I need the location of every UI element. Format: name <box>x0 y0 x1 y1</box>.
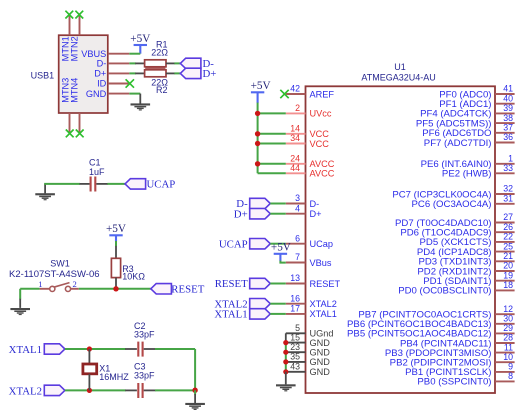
net label RESET (switch side) <box>151 284 172 294</box>
svg-text:AREF: AREF <box>310 89 335 99</box>
junction VCC pin14 <box>255 131 260 136</box>
U1 pin 40 PF1 <box>495 103 515 105</box>
USB1 pin MTN2 <box>79 15 81 35</box>
USB1 pin MTN1 <box>69 15 71 35</box>
svg-text:D+: D+ <box>310 209 322 219</box>
USB1 pin GND <box>108 93 130 95</box>
no-connect X on AREF <box>280 90 288 98</box>
U1 pin 27 PD7 <box>495 222 515 224</box>
wire rail to UVcc <box>258 112 286 114</box>
svg-text:38: 38 <box>503 113 513 123</box>
svg-text:42: 42 <box>290 84 300 94</box>
U1 pin 32 PC7 <box>495 193 515 195</box>
junction XTAL1/crystal <box>87 346 92 351</box>
svg-text:6: 6 <box>295 233 300 243</box>
wire +5V to R3 <box>115 241 117 246</box>
svg-text:40: 40 <box>503 93 513 103</box>
svg-text:XTAL1: XTAL1 <box>214 309 247 321</box>
svg-text:13: 13 <box>290 273 300 283</box>
svg-text:+5V: +5V <box>130 33 150 45</box>
svg-text:GND: GND <box>86 89 107 99</box>
svg-text:+5V: +5V <box>251 80 271 92</box>
svg-text:PD0 (OC0BSCLINT0): PD0 (OC0BSCLINT0) <box>398 286 491 297</box>
svg-text:20: 20 <box>503 261 513 271</box>
svg-text:C1: C1 <box>89 157 101 167</box>
svg-text:10: 10 <box>503 352 513 362</box>
wire D- to U1 <box>270 203 286 205</box>
ground (USB) <box>139 94 141 104</box>
svg-text:ATMEGA32U4-AU: ATMEGA32U4-AU <box>361 73 435 83</box>
U1 pin 34 VCC <box>286 143 306 145</box>
svg-text:1: 1 <box>508 154 513 164</box>
U1 pin 39 PF4 <box>495 112 515 114</box>
svg-text:24: 24 <box>290 154 300 164</box>
svg-text:PB0 (SSPCINT0): PB0 (SSPCINT0) <box>417 377 491 388</box>
svg-text:19: 19 <box>503 270 513 280</box>
svg-text:4: 4 <box>295 203 300 213</box>
U1 pin 13 RESET <box>286 283 306 285</box>
no-connect X MTN4 <box>76 130 84 138</box>
switch contact 1 <box>50 286 55 291</box>
svg-text:30: 30 <box>503 314 513 324</box>
U1 pin 29 PB5 <box>495 332 515 334</box>
wire ground to C1 <box>44 183 80 185</box>
wire RESET to U1 <box>270 283 286 285</box>
wire ground to switch pin 1 <box>20 288 39 290</box>
svg-text:PF7 (ADC7TDI): PF7 (ADC7TDI) <box>424 138 492 149</box>
svg-text:UCAP: UCAP <box>147 179 176 191</box>
resistor R3 10K <box>111 258 120 277</box>
wire switch to RESET junction <box>79 288 151 290</box>
svg-text:12: 12 <box>503 304 513 314</box>
U1 pin 19 PD1 <box>495 280 515 282</box>
svg-text:GND: GND <box>310 338 331 348</box>
capacitor C2 33pF <box>125 348 137 350</box>
svg-text:ID: ID <box>97 79 107 89</box>
svg-text:D+: D+ <box>94 69 106 79</box>
svg-text:AVCC: AVCC <box>310 169 335 179</box>
svg-text:39: 39 <box>503 103 513 113</box>
svg-text:11: 11 <box>504 342 513 352</box>
wire right rail vertical <box>194 349 196 390</box>
USB1 pin D- <box>108 62 130 64</box>
U1 pin 17 XTAL1 <box>286 313 306 315</box>
USB1 pin MTN4 <box>79 113 81 133</box>
junction RESET net <box>113 286 118 291</box>
svg-text:UCAP: UCAP <box>219 238 248 250</box>
U1 pin 44 AVCC <box>286 172 306 174</box>
wire VBUS to +5V <box>129 53 140 55</box>
svg-text:1uF: 1uF <box>89 167 105 177</box>
U1 pin 33 PE2 <box>495 172 515 174</box>
U1 pin 43 GND <box>286 371 306 373</box>
wire rail to AVCC pin24 <box>258 163 286 165</box>
U1 pin 11 PB3 <box>495 352 515 354</box>
svg-text:25: 25 <box>503 241 513 251</box>
wire C1 to UCAP label <box>107 183 125 185</box>
wire XTAL1 to U1 <box>270 313 286 315</box>
switch SW1 pin 2 <box>71 288 79 290</box>
U1 pin 6 UCap <box>286 243 306 245</box>
svg-text:D-: D- <box>97 59 107 69</box>
svg-text:35: 35 <box>290 352 300 362</box>
svg-text:VBus: VBus <box>310 258 332 268</box>
svg-text:XTAL2: XTAL2 <box>310 299 337 309</box>
junction GND pin35 <box>283 359 288 364</box>
wire USB D+ to R2 <box>129 72 136 74</box>
net label D- (USB side) <box>180 58 201 68</box>
svg-text:7: 7 <box>295 252 300 262</box>
svg-text:K2-1107ST-A4SW-06: K2-1107ST-A4SW-06 <box>9 269 99 280</box>
svg-text:R2: R2 <box>156 85 168 95</box>
wire rail to VCC pin14 <box>258 133 286 135</box>
wire C3 to right rail <box>155 389 195 391</box>
svg-text:43: 43 <box>290 362 300 372</box>
U1 pin 8 PB0 <box>495 380 515 382</box>
wire USB GND to ground <box>129 93 140 95</box>
svg-text:22Ω: 22Ω <box>151 48 168 58</box>
junction XTAL2/crystal <box>87 388 92 393</box>
U1 pin 30 PB6 <box>495 323 515 325</box>
svg-text:31: 31 <box>503 194 513 204</box>
junction right rail / ground <box>192 388 197 393</box>
U1 pin 2 UVcc <box>286 112 306 114</box>
svg-text:18: 18 <box>503 280 513 290</box>
svg-text:22: 22 <box>503 232 513 242</box>
svg-text:37: 37 <box>503 123 513 133</box>
wire UCAP to U1 <box>270 243 286 245</box>
svg-text:XTAL1: XTAL1 <box>310 309 337 319</box>
svg-text:PE2 (HWB): PE2 (HWB) <box>442 169 492 180</box>
wire rail to AVCC pin44 <box>258 172 286 174</box>
svg-text:GND: GND <box>310 348 331 358</box>
svg-text:36: 36 <box>503 132 513 142</box>
svg-text:16: 16 <box>290 293 300 303</box>
svg-text:44: 44 <box>290 163 300 173</box>
IC U1 body <box>306 86 496 393</box>
switch SW1 pin 1 <box>40 288 50 290</box>
U1 pin 36 PF7 <box>495 142 515 144</box>
svg-text:16MHZ: 16MHZ <box>99 372 129 382</box>
svg-text:VBUS: VBUS <box>81 49 106 59</box>
svg-text:D+: D+ <box>234 208 248 220</box>
U1 pin 16 XTAL2 <box>286 303 306 305</box>
U1 pin 10 PB2 <box>495 361 515 363</box>
svg-text:GND: GND <box>310 357 331 367</box>
wire D+ to U1 <box>270 213 286 215</box>
USB1 pin VBUS <box>108 53 130 55</box>
switch contact 2 <box>65 286 70 291</box>
connector USB1 <box>59 35 108 113</box>
U1 pin 37 PF6 <box>495 132 515 134</box>
capacitor C1 1uF <box>80 183 90 185</box>
wire XTAL2 row <box>65 389 126 391</box>
wire UGnd bus vertical <box>285 333 287 343</box>
svg-text:9: 9 <box>508 362 513 372</box>
svg-text:3: 3 <box>295 193 300 203</box>
U1 pin 31 PC6 <box>495 203 515 205</box>
wire C2 to right rail <box>155 348 195 350</box>
U1 pin 26 PD6 <box>495 231 515 233</box>
svg-text:XTAL1: XTAL1 <box>9 344 42 356</box>
svg-text:27: 27 <box>503 212 513 222</box>
svg-text:D-: D- <box>310 199 320 209</box>
net label UCAP (C1 side) <box>125 179 146 189</box>
svg-text:14: 14 <box>290 124 300 134</box>
svg-text:2: 2 <box>295 103 300 113</box>
no-connect X MTN3 <box>66 130 74 138</box>
svg-text:33pF: 33pF <box>134 330 155 340</box>
U1 pin 22 PD5 <box>495 241 515 243</box>
junction UVcc <box>255 111 260 116</box>
no-connect X on USB ID <box>126 79 134 87</box>
svg-text:UCap: UCap <box>310 239 334 249</box>
svg-text:32: 32 <box>503 184 513 194</box>
wire +5V to VBus <box>280 261 285 263</box>
svg-text:21: 21 <box>503 251 513 261</box>
svg-text:GND: GND <box>310 367 331 377</box>
U1 pin 25 PD4 <box>495 251 515 253</box>
switch lever <box>54 283 70 288</box>
svg-text:RESET: RESET <box>171 284 204 296</box>
U1 pin 9 PB1 <box>495 371 515 373</box>
U1 pin 1 PE6 <box>495 163 515 165</box>
svg-text:33pF: 33pF <box>134 370 155 380</box>
svg-text:33: 33 <box>503 163 513 173</box>
U1 pin 38 PF5 <box>495 122 515 124</box>
wire XTAL2 to U1 <box>270 303 286 305</box>
USB1 pin ID <box>108 83 130 85</box>
svg-text:VCC: VCC <box>310 139 330 149</box>
svg-text:PC6 (OC3AOC4A): PC6 (OC3AOC4A) <box>412 199 492 210</box>
svg-text:23: 23 <box>290 342 300 352</box>
junction VCC pin34 <box>255 141 260 146</box>
ground (crystal) <box>194 390 196 394</box>
wire USB D- to R1 <box>129 62 136 64</box>
junction GND pin23 <box>283 350 288 355</box>
U1 pin 28 PB4 <box>495 342 515 344</box>
svg-text:D+: D+ <box>203 68 217 80</box>
svg-text:+5V: +5V <box>271 242 291 254</box>
U1 pin 42 AREF <box>286 93 306 95</box>
svg-text:RESET: RESET <box>310 279 341 289</box>
U1 pin 23 GND <box>286 351 306 353</box>
wire R3 to junction <box>115 278 117 289</box>
junction AVCC pin24 <box>255 161 260 166</box>
wire R1 to D- label <box>166 62 175 64</box>
svg-text:+5V: +5V <box>106 223 126 235</box>
svg-text:AVCC: AVCC <box>310 159 335 169</box>
U1 pin 20 PD2 <box>495 270 515 272</box>
junction GND pin15 <box>283 340 288 345</box>
svg-text:XTAL2: XTAL2 <box>9 385 42 397</box>
crystal X1 16MHZ <box>88 349 90 364</box>
U1 pin 14 VCC <box>286 133 306 135</box>
U1 pin 24 AVCC <box>286 163 306 165</box>
svg-text:15: 15 <box>290 332 300 342</box>
svg-text:17: 17 <box>290 304 300 314</box>
ground (switch) <box>19 289 21 300</box>
resistor R1 22ohm <box>145 67 165 70</box>
svg-text:VCC: VCC <box>310 129 330 139</box>
wire +5V rail vertical <box>257 103 259 174</box>
svg-text:28: 28 <box>503 333 513 343</box>
U1 pin 21 PD3 <box>495 260 515 262</box>
svg-text:USB1: USB1 <box>31 71 55 81</box>
junction GND pin43 <box>283 369 288 374</box>
resistor R2 22ohm <box>145 70 166 77</box>
svg-text:UVcc: UVcc <box>310 109 332 119</box>
svg-text:1: 1 <box>38 279 42 289</box>
no-connect X MTN1 <box>65 11 73 19</box>
svg-text:2: 2 <box>72 279 76 289</box>
svg-text:41: 41 <box>503 84 513 94</box>
svg-text:8: 8 <box>508 371 513 381</box>
USB1 pin MTN3 <box>69 113 71 133</box>
U1 pin 12 PB7 <box>495 313 515 315</box>
svg-text:10KΩ: 10KΩ <box>122 272 145 282</box>
U1 pin 4 D+ <box>286 213 306 215</box>
net label D+ (USB side) <box>180 68 201 78</box>
svg-text:29: 29 <box>503 323 513 333</box>
svg-text:26: 26 <box>503 222 513 232</box>
U1 pin 5 UGnd <box>286 332 306 334</box>
svg-text:MTN2: MTN2 <box>69 36 79 61</box>
svg-text:MTN4: MTN4 <box>69 78 79 103</box>
wire R2 to D+ label <box>166 72 175 74</box>
wire XTAL1 row <box>65 348 126 350</box>
svg-text:SW1: SW1 <box>50 259 70 269</box>
svg-text:34: 34 <box>290 133 300 143</box>
svg-text:U1: U1 <box>394 62 406 72</box>
U1 pin 18 PD0 <box>495 289 515 291</box>
U1 pin 15 GND <box>286 342 306 344</box>
USB1 pin D+ <box>108 72 130 74</box>
svg-text:RESET: RESET <box>215 278 248 290</box>
ground (C1) <box>35 193 55 200</box>
U1 pin 3 D- <box>286 203 306 205</box>
U1 pin 41 PF0 <box>495 93 515 95</box>
wire rail to VCC pin34 <box>258 143 286 145</box>
U1 pin 35 GND <box>286 361 306 363</box>
U1 pin 7 VBus <box>286 262 306 264</box>
no-connect X MTN2 <box>75 11 83 19</box>
ground (U1) <box>285 372 287 385</box>
capacitor C3 33pF <box>125 389 137 391</box>
